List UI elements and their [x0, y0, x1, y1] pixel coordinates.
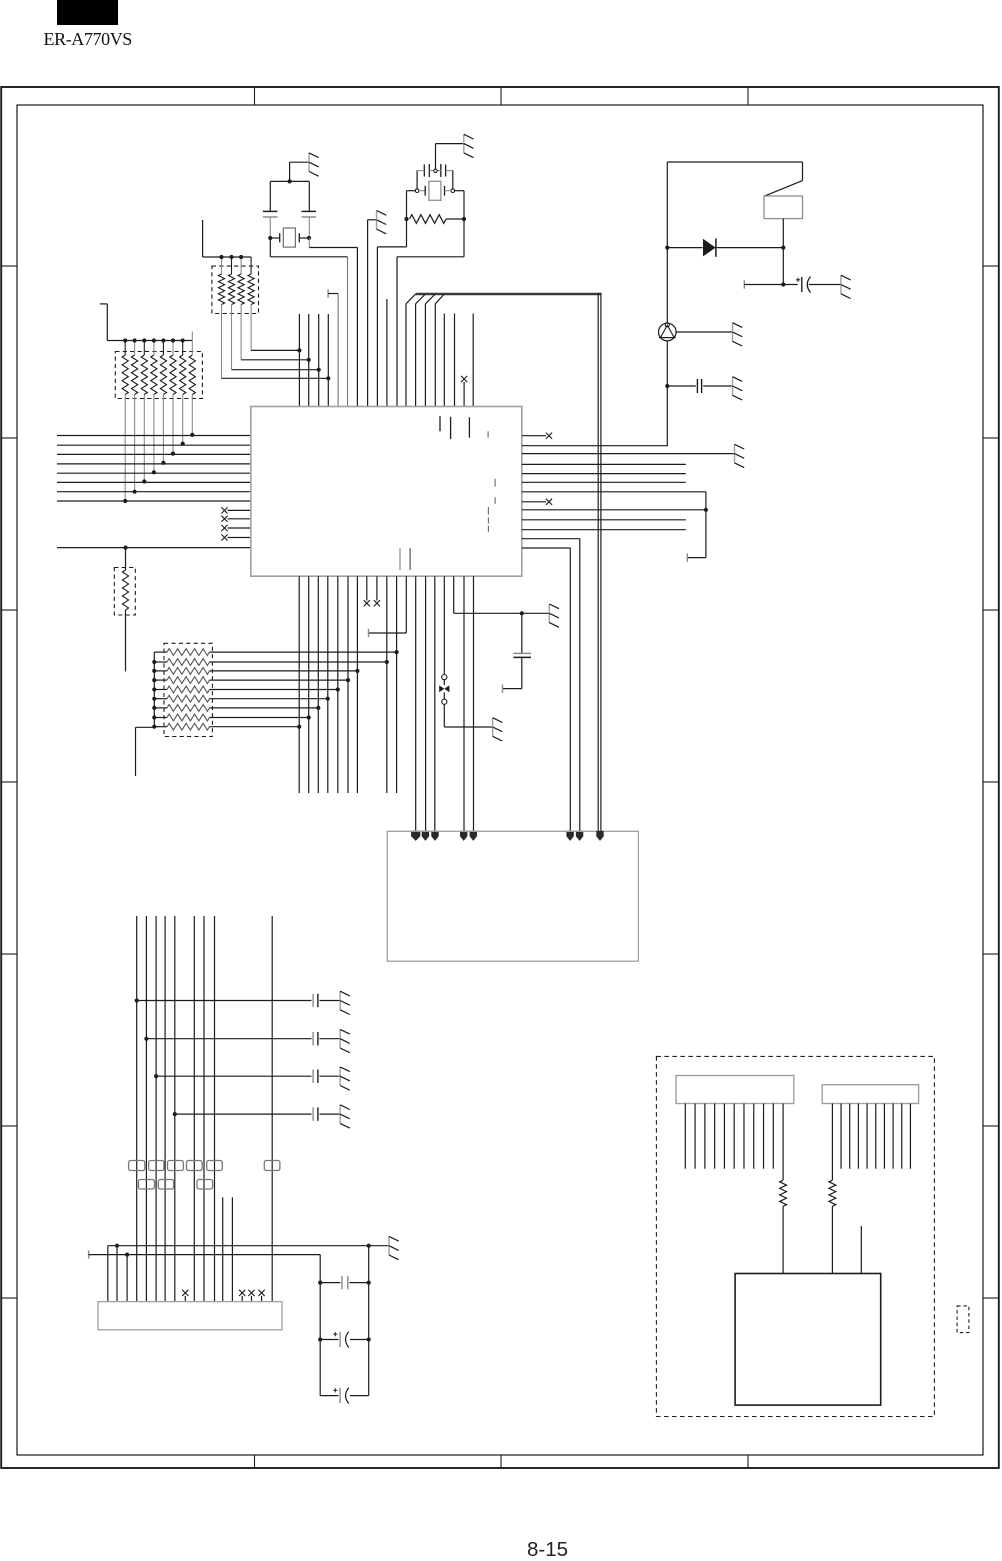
wire [411, 576, 420, 841]
resistor R2 [114, 548, 135, 672]
wire [522, 519, 686, 521]
wire [665, 341, 669, 446]
wire [703, 385, 732, 387]
op-amp U1 (main IC) [251, 407, 522, 577]
resistor R3 [780, 1180, 787, 1206]
header black box [57, 0, 118, 25]
wire [521, 613, 523, 653]
relay L1 [764, 162, 803, 219]
LCD module [735, 1274, 881, 1406]
wire [308, 218, 310, 239]
wire [522, 539, 584, 841]
no-connect X mark [221, 507, 250, 540]
wire [781, 248, 785, 287]
ground [733, 377, 743, 400]
wire [222, 305, 331, 407]
wire [596, 831, 603, 841]
wire [522, 445, 668, 447]
wire [270, 180, 309, 182]
wire [831, 1104, 833, 1181]
capacitor C12 (polarized) [333, 1388, 349, 1404]
no-connect X mark [182, 1290, 265, 1302]
wire [366, 576, 368, 600]
wire [831, 1206, 833, 1273]
header model label [44, 29, 132, 50]
wire [327, 576, 329, 793]
wire [503, 658, 522, 693]
wire [317, 576, 319, 793]
ground [389, 1236, 399, 1259]
wire [407, 191, 416, 219]
wire [522, 509, 706, 511]
diode D1 [703, 238, 716, 256]
capacitor C11 (polarized) [333, 1332, 349, 1348]
wire [320, 1000, 341, 1002]
wire [809, 284, 841, 286]
wire [320, 1113, 341, 1115]
wire [782, 219, 784, 248]
ground [340, 1105, 350, 1128]
wire [369, 576, 407, 637]
wire [241, 305, 311, 407]
wire [666, 248, 668, 324]
junction [288, 179, 292, 183]
wire [454, 576, 524, 615]
capacitor C10 [342, 1276, 348, 1289]
junction [173, 1112, 177, 1116]
ground [340, 991, 350, 1014]
wire [386, 299, 388, 407]
wire [431, 576, 438, 841]
resistor network RN1 [115, 332, 202, 399]
wire [676, 331, 732, 333]
ground [493, 718, 503, 741]
wire [308, 576, 310, 793]
connector CN3 [676, 1076, 794, 1104]
ground [340, 1029, 350, 1052]
wire [123, 395, 194, 504]
wire [782, 1104, 784, 1181]
wire [667, 162, 802, 248]
wire [89, 1250, 321, 1395]
wire [175, 1113, 312, 1115]
wire [146, 1038, 311, 1040]
connector CN2 (bottom) [98, 1302, 282, 1330]
wire [203, 220, 252, 257]
jumper JP1 [439, 675, 449, 705]
crystal X2 [415, 181, 454, 200]
junction [268, 236, 272, 240]
no-connect X mark [546, 499, 552, 505]
wire [269, 218, 271, 239]
wire [386, 576, 388, 793]
wire [667, 385, 696, 387]
connector CN4 [822, 1085, 918, 1104]
junction [404, 217, 408, 221]
wire [156, 1075, 311, 1077]
wire [782, 1206, 784, 1273]
wire [320, 1075, 341, 1077]
junction [665, 246, 785, 250]
wire [443, 576, 445, 674]
wire [454, 314, 456, 407]
wire [417, 171, 453, 189]
wire [269, 181, 271, 211]
capacitor C6 [313, 994, 318, 1007]
junction [154, 1074, 158, 1078]
wire [368, 220, 377, 407]
jumper pads [129, 1161, 280, 1190]
display unit outline [656, 1056, 934, 1416]
wire [522, 529, 686, 531]
wire [472, 314, 474, 407]
capacitor C8 [313, 1070, 318, 1083]
wire [860, 1226, 862, 1274]
capacitor C4 (polarized) [796, 277, 811, 293]
wire [57, 546, 251, 550]
bus wire [406, 293, 602, 831]
capacitor C7 [313, 1032, 318, 1045]
no-connect X mark [461, 376, 467, 382]
capacitor C3 [513, 653, 531, 657]
wire [522, 473, 686, 475]
wire [376, 576, 378, 600]
page number [527, 1542, 568, 1557]
wire [460, 576, 467, 841]
junction [462, 217, 466, 221]
wire [270, 238, 347, 407]
ground [309, 153, 319, 176]
wire [744, 280, 798, 288]
node A [957, 1306, 969, 1333]
resistor R1 [410, 215, 465, 224]
wire [463, 382, 465, 407]
wire [717, 247, 784, 249]
no-connect X mark [374, 600, 380, 606]
wire [320, 1038, 341, 1040]
wire [436, 144, 464, 169]
wire [318, 1281, 371, 1285]
wire [522, 435, 546, 437]
wire [328, 289, 338, 406]
wire [522, 501, 546, 503]
wire [397, 219, 464, 407]
ground [733, 323, 743, 346]
wire [251, 305, 301, 407]
ground [377, 211, 387, 234]
wire [308, 181, 310, 211]
crystal X1 [270, 228, 309, 247]
wire [298, 576, 300, 793]
junction [144, 1037, 148, 1041]
wire [667, 247, 702, 249]
wire [444, 704, 492, 727]
wire [320, 1395, 369, 1397]
resistor network RN2 [136, 643, 213, 776]
wire [522, 612, 550, 614]
ground [735, 444, 745, 467]
wire [455, 191, 464, 219]
wire [318, 1337, 371, 1341]
wire [443, 314, 445, 407]
junction [307, 236, 311, 240]
junction [135, 998, 139, 1002]
wire [337, 576, 339, 793]
wire [522, 453, 735, 455]
trimmer capacitor CT1 [417, 164, 453, 177]
ground [841, 275, 851, 298]
wire [522, 481, 686, 483]
resistor network RN0 [212, 255, 259, 314]
capacitor C2 [302, 211, 317, 217]
ground [464, 134, 474, 157]
wire [470, 576, 477, 841]
resistor R4 [829, 1180, 836, 1206]
wire [223, 1197, 233, 1301]
wire [522, 492, 708, 562]
wire [368, 1246, 370, 1396]
wire [100, 304, 193, 341]
wire [232, 305, 321, 407]
wire [522, 463, 686, 465]
wire [108, 1244, 389, 1302]
capacitor C1 [263, 211, 278, 217]
no-connect X mark [364, 600, 370, 606]
connector CN1 [387, 831, 638, 961]
wire [137, 1000, 312, 1002]
wire [137, 916, 273, 1302]
ground [549, 604, 559, 627]
wire [347, 576, 349, 793]
wire [210, 650, 399, 729]
wire [309, 238, 357, 407]
wire [290, 162, 309, 181]
wire [377, 219, 406, 407]
capacitor C9 [313, 1107, 318, 1120]
wire [396, 576, 398, 793]
wire [522, 548, 574, 841]
buzzer BZ1 [659, 323, 677, 341]
ground [340, 1067, 350, 1090]
wire [685, 1104, 773, 1169]
wire [422, 576, 429, 841]
wire [57, 436, 251, 502]
no-connect X mark [546, 433, 552, 439]
capacitor C5 [697, 379, 701, 393]
wire [841, 1104, 910, 1169]
wire [356, 576, 358, 793]
